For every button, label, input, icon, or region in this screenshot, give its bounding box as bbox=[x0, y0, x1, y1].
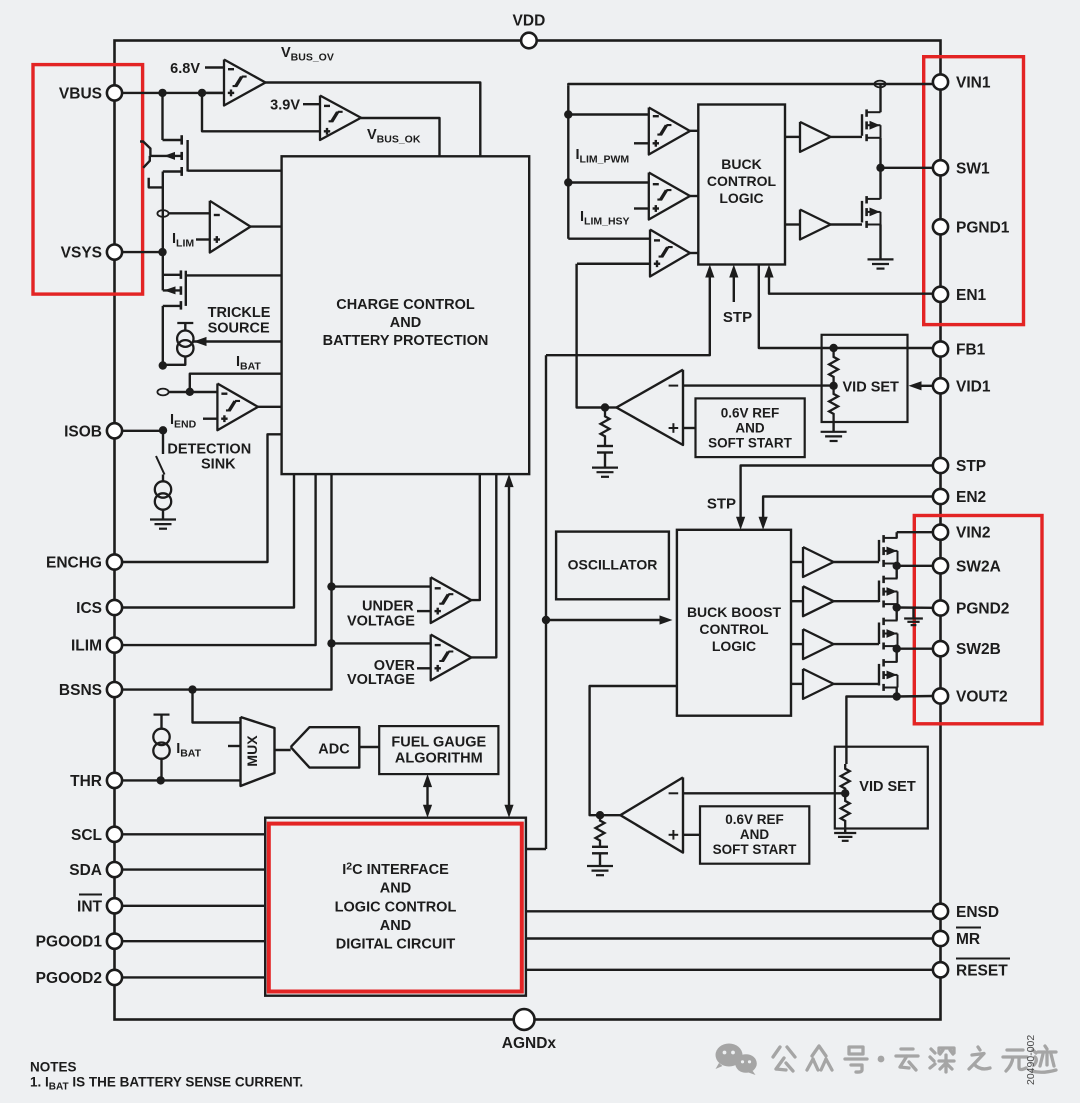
svg-text:VBUS: VBUS bbox=[59, 85, 102, 102]
svg-text:LOGIC CONTROL: LOGIC CONTROL bbox=[335, 900, 457, 916]
svg-text:VID1: VID1 bbox=[956, 378, 991, 395]
svg-text:BATTERY PROTECTION: BATTERY PROTECTION bbox=[323, 333, 489, 349]
svg-text:BUCK BOOST: BUCK BOOST bbox=[687, 604, 782, 620]
svg-text:VOLTAGE: VOLTAGE bbox=[347, 672, 415, 688]
svg-text:ALGORITHM: ALGORITHM bbox=[395, 751, 483, 767]
svg-text:STP: STP bbox=[956, 458, 986, 475]
svg-text:PGOOD2: PGOOD2 bbox=[36, 970, 102, 987]
svg-text:ILIM: ILIM bbox=[71, 638, 102, 655]
svg-text:SOFT START: SOFT START bbox=[713, 842, 797, 857]
svg-text:FUEL GAUGE: FUEL GAUGE bbox=[391, 735, 486, 751]
svg-text:CONTROL: CONTROL bbox=[707, 173, 777, 189]
svg-text:SINK: SINK bbox=[201, 457, 236, 473]
svg-text:PGOOD1: PGOOD1 bbox=[36, 934, 103, 951]
svg-text:MUX: MUX bbox=[244, 735, 260, 767]
svg-text:SOFT START: SOFT START bbox=[708, 436, 792, 451]
svg-text:STP: STP bbox=[723, 309, 752, 326]
svg-text:ICS: ICS bbox=[76, 600, 102, 617]
svg-text:RESET: RESET bbox=[956, 962, 1008, 979]
svg-text:6.8V: 6.8V bbox=[170, 61, 200, 77]
svg-text:DIGITAL CIRCUIT: DIGITAL CIRCUIT bbox=[336, 937, 456, 953]
svg-text:VOUT2: VOUT2 bbox=[956, 689, 1008, 706]
svg-text:TRICKLE: TRICKLE bbox=[208, 305, 271, 321]
svg-text:AND: AND bbox=[735, 421, 764, 436]
svg-text:AND: AND bbox=[390, 315, 421, 331]
svg-text:0.6V REF: 0.6V REF bbox=[725, 812, 784, 827]
svg-text:LOGIC: LOGIC bbox=[712, 638, 756, 654]
svg-text:SCL: SCL bbox=[71, 827, 102, 844]
svg-text:NOTES: NOTES bbox=[30, 1060, 77, 1075]
svg-text:VID SET: VID SET bbox=[859, 779, 916, 795]
svg-text:SW1: SW1 bbox=[956, 160, 990, 177]
svg-text:AND: AND bbox=[740, 827, 769, 842]
svg-text:VIN2: VIN2 bbox=[956, 525, 990, 542]
svg-text:I2C INTERFACE: I2C INTERFACE bbox=[342, 861, 449, 879]
svg-text:SDA: SDA bbox=[69, 862, 102, 879]
svg-text:20490-002: 20490-002 bbox=[1025, 1035, 1037, 1085]
svg-text:SOURCE: SOURCE bbox=[208, 321, 270, 337]
svg-text:SW2A: SW2A bbox=[956, 558, 1001, 575]
svg-text:PGND1: PGND1 bbox=[956, 219, 1010, 236]
svg-text:3.9V: 3.9V bbox=[270, 98, 300, 114]
svg-text:OSCILLATOR: OSCILLATOR bbox=[568, 557, 658, 573]
svg-text:ENCHG: ENCHG bbox=[46, 555, 102, 572]
svg-text:BSNS: BSNS bbox=[59, 682, 102, 699]
svg-text:EN2: EN2 bbox=[956, 489, 986, 506]
svg-text:0.6V REF: 0.6V REF bbox=[721, 406, 780, 421]
svg-text:SW2B: SW2B bbox=[956, 641, 1001, 658]
svg-text:THR: THR bbox=[70, 773, 102, 790]
svg-text:VDD: VDD bbox=[513, 13, 546, 30]
svg-text:UNDER: UNDER bbox=[362, 599, 414, 615]
svg-text:AND: AND bbox=[380, 881, 411, 897]
svg-text:AND: AND bbox=[380, 918, 411, 934]
svg-text:VSYS: VSYS bbox=[61, 245, 102, 262]
svg-text:EN1: EN1 bbox=[956, 287, 987, 304]
svg-text:ADC: ADC bbox=[318, 742, 350, 758]
svg-text:BUCK: BUCK bbox=[721, 156, 761, 172]
svg-text:CONTROL: CONTROL bbox=[699, 621, 769, 637]
svg-text:VOLTAGE: VOLTAGE bbox=[347, 614, 415, 630]
svg-text:VID SET: VID SET bbox=[843, 380, 900, 396]
svg-text:LOGIC: LOGIC bbox=[719, 190, 763, 206]
svg-text:INT: INT bbox=[77, 898, 103, 915]
svg-text:AGNDx: AGNDx bbox=[502, 1035, 557, 1052]
svg-text:ENSD: ENSD bbox=[956, 904, 999, 921]
svg-text:DETECTION: DETECTION bbox=[167, 442, 251, 458]
svg-text:STP: STP bbox=[707, 496, 736, 513]
svg-text:VIN1: VIN1 bbox=[956, 75, 991, 92]
svg-text:PGND2: PGND2 bbox=[956, 601, 1009, 618]
svg-text:ISOB: ISOB bbox=[64, 423, 102, 440]
svg-text:CHARGE CONTROL: CHARGE CONTROL bbox=[336, 297, 475, 313]
svg-text:FB1: FB1 bbox=[956, 342, 986, 359]
svg-text:MR: MR bbox=[956, 931, 980, 948]
